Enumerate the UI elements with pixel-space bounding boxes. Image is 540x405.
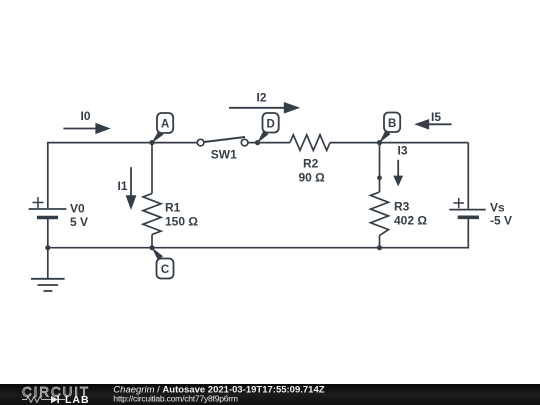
svg-text:C: C: [161, 264, 169, 276]
svg-text:V0: V0: [70, 202, 85, 216]
resistor R3 zigzag: [371, 192, 389, 236]
svg-text:I0: I0: [81, 109, 91, 123]
junction dot node D: [255, 140, 260, 145]
wire R3 branch top: [379, 143, 381, 192]
svg-text:150 Ω: 150 Ω: [165, 215, 198, 229]
voltage source V0 negative plate: [37, 216, 58, 220]
current arrow I2: [229, 102, 300, 114]
svg-text:R1: R1: [165, 201, 181, 215]
voltage source Vs positive plate: [449, 209, 485, 211]
current arrow I5: [414, 119, 451, 130]
CircuitLab logo diode: [47, 396, 65, 404]
svg-text:-5 V: -5 V: [490, 214, 512, 228]
svg-text:B: B: [388, 118, 396, 130]
svg-text:I1: I1: [118, 179, 128, 193]
ground symbol: [31, 279, 65, 291]
svg-text:http://circuitlab.com/cht77y8f: http://circuitlab.com/cht77y8f9p6rm: [113, 394, 238, 404]
voltage source Vs plus sign: [454, 198, 465, 209]
svg-text:402 Ω: 402 Ω: [394, 214, 427, 228]
node D flag: [257, 113, 279, 143]
svg-text:I5: I5: [431, 110, 441, 124]
wire V0 bottom: [47, 218, 49, 248]
wire right vertical to Vs: [467, 143, 469, 209]
svg-text:SW1: SW1: [211, 147, 237, 161]
wire R3 branch bottom: [379, 236, 381, 248]
switch SW1 right terminal: [241, 139, 248, 146]
wire Vs bottom to corner: [48, 218, 469, 248]
junction dot node A: [149, 140, 154, 145]
voltage source Vs negative plate: [458, 216, 479, 220]
switch SW1 lever: [204, 137, 245, 142]
wire ground stem: [47, 248, 49, 279]
svg-text:I2: I2: [257, 91, 267, 105]
node C flag: [152, 247, 174, 278]
svg-text:R3: R3: [394, 200, 410, 214]
svg-text:D: D: [266, 118, 274, 130]
voltage source V0 plus sign: [33, 197, 44, 208]
current arrow I3: [393, 160, 403, 187]
junction dot node B: [377, 140, 382, 145]
current arrow I0: [63, 123, 110, 134]
wire switch right to R2: [248, 142, 290, 144]
resistor R2 zigzag: [290, 135, 330, 151]
svg-text:5 V: 5 V: [70, 215, 88, 229]
current arrow I1: [126, 167, 137, 210]
junction dot R3 top terminal: [377, 175, 382, 180]
svg-text:A: A: [161, 119, 169, 131]
junction dot bottom left: [45, 245, 50, 250]
wire R1 branch top: [151, 143, 153, 194]
wire R2 to top-right corner: [330, 142, 468, 144]
CircuitLab logo resistor squiggle: [22, 397, 47, 403]
node B flag: [379, 113, 400, 144]
footer bar: [0, 384, 540, 405]
svg-text:LAB: LAB: [65, 394, 90, 405]
wire top rail left (V0 top to switch): [48, 143, 197, 208]
junction dot bottom R3: [377, 245, 382, 250]
wire R1 branch bottom: [151, 235, 153, 248]
switch SW1 left terminal: [197, 139, 204, 146]
svg-text:R2: R2: [303, 157, 319, 171]
node A flag: [152, 113, 174, 143]
svg-text:I3: I3: [398, 144, 408, 158]
svg-text:Vs: Vs: [490, 201, 505, 215]
junction dot node C: [149, 245, 154, 250]
svg-text:90 Ω: 90 Ω: [299, 171, 326, 185]
resistor R1 zigzag: [143, 194, 161, 235]
voltage source V0 positive plate: [29, 208, 67, 210]
